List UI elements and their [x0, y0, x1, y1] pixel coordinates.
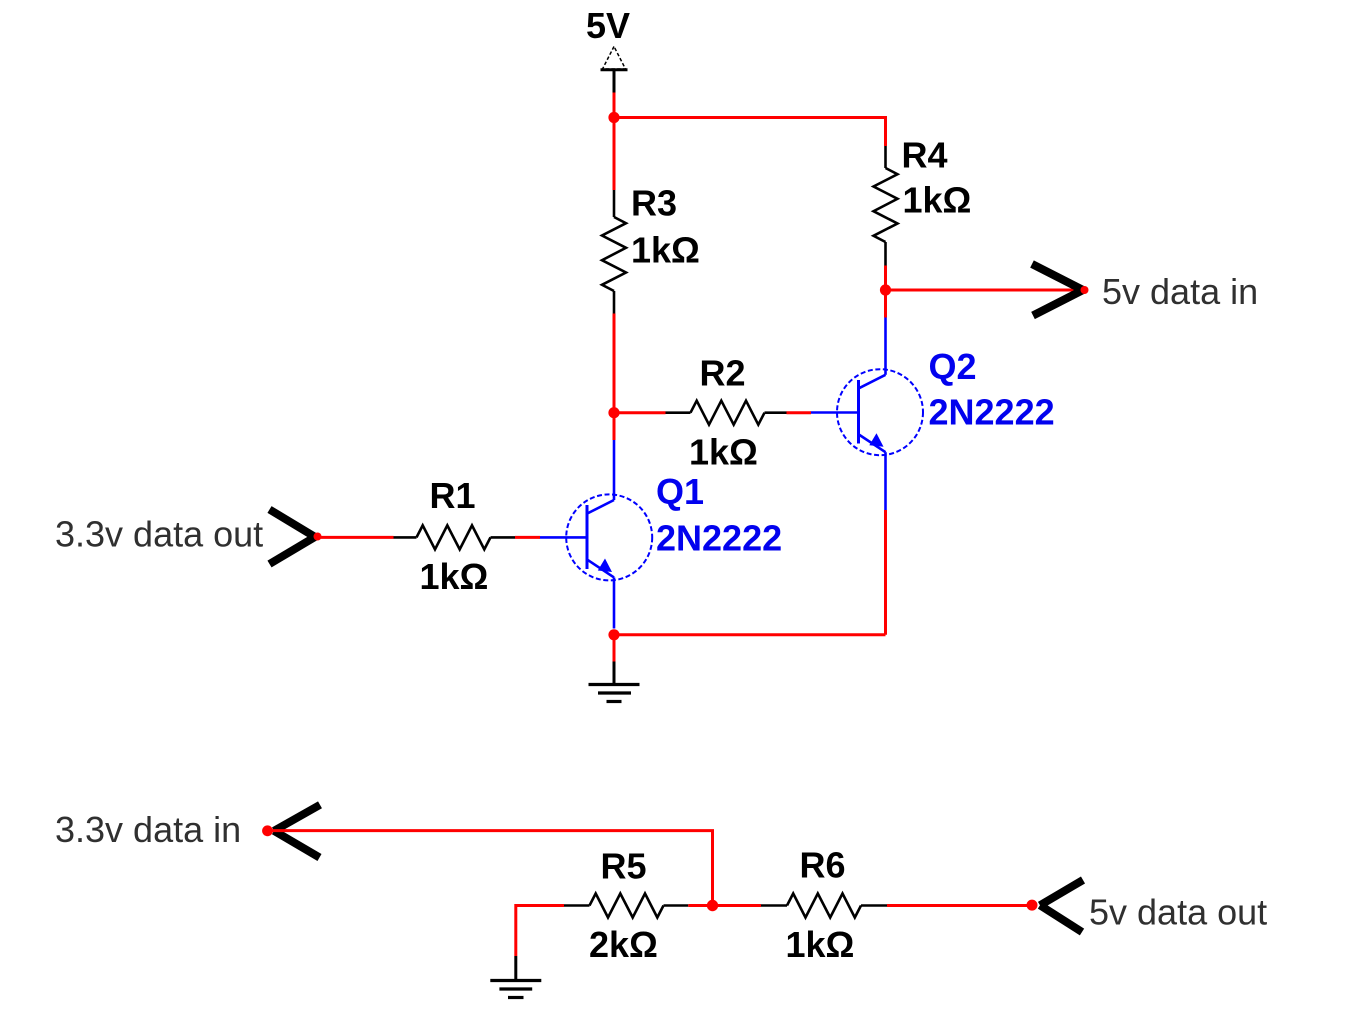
wire node A down to R3 [613, 118, 616, 191]
svg-text:Q1: Q1 [656, 471, 704, 512]
node E junction (R5/R6) [707, 900, 718, 911]
svg-text:1kΩ: 1kΩ [689, 432, 758, 473]
wire node C down to Q1 [613, 413, 616, 440]
svg-text:2N2222: 2N2222 [929, 392, 1055, 433]
svg-text:Q2: Q2 [929, 346, 977, 387]
svg-text:1kΩ: 1kΩ [420, 556, 489, 597]
svg-text:2kΩ: 2kΩ [589, 924, 658, 965]
svg-text:5v data out: 5v data out [1089, 892, 1267, 933]
svg-text:1kΩ: 1kΩ [786, 924, 855, 965]
wire R6 to 5v data out port [887, 904, 1031, 907]
wire top rail [614, 118, 886, 147]
wire node C to R2 [614, 411, 666, 414]
wire node B to 5v data in port [886, 289, 1083, 292]
wire R2 to Q2 base [787, 411, 812, 414]
svg-text:5v data in: 5v data in [1102, 271, 1258, 312]
transistor Q2 [811, 318, 924, 511]
svg-text:3.3v data out: 3.3v data out [55, 514, 263, 555]
wire node D to ground [613, 635, 616, 662]
wire R3 to node C [613, 314, 616, 413]
node D junction (Q1 emitter) [608, 629, 619, 640]
wire Q2 emitter down [884, 510, 887, 635]
ground GND2 [490, 956, 541, 998]
ground GND1 [589, 662, 640, 702]
wire node E to R6 [713, 904, 762, 907]
node C junction [608, 407, 619, 418]
wire node D to Q2 emitter [614, 633, 886, 636]
svg-text:R6: R6 [800, 845, 846, 886]
resistor R2 [666, 401, 787, 425]
svg-text:1kΩ: 1kΩ [631, 230, 700, 271]
svg-text:R2: R2 [700, 353, 746, 394]
svg-text:R4: R4 [902, 135, 948, 176]
node A junction [608, 112, 619, 123]
wire port to R1 [317, 536, 394, 539]
port arrow 3.3v data in [262, 805, 320, 858]
wire R5 left corner [516, 906, 564, 957]
svg-text:5V: 5V [586, 5, 630, 46]
port arrow 3.3v data out [270, 510, 322, 565]
port arrow 5v data out [1027, 880, 1084, 932]
resistor R3 [602, 190, 626, 314]
svg-text:R1: R1 [430, 475, 476, 516]
resistor R4 [874, 146, 898, 266]
wire 3.3v data in to corner [272, 831, 713, 906]
port arrow 5v data in [1032, 264, 1089, 316]
svg-text:R3: R3 [631, 183, 677, 224]
transistor Q1 [540, 440, 653, 629]
wire 5V stub to node A [613, 93, 616, 118]
resistor R1 [394, 525, 516, 549]
wire node B to Q2 collector [884, 290, 887, 318]
svg-text:1kΩ: 1kΩ [903, 180, 972, 221]
node B junction [880, 284, 891, 295]
svg-text:R5: R5 [601, 846, 647, 887]
wire R4 to node B [884, 266, 887, 291]
svg-text:3.3v data in: 3.3v data in [55, 809, 241, 850]
resistor R5 [564, 894, 688, 918]
power symbol 5V [601, 47, 628, 93]
wire R5 to node E [688, 904, 712, 907]
resistor R6 [761, 894, 887, 918]
svg-text:2N2222: 2N2222 [656, 518, 782, 559]
wire R1 to Q1 base [515, 536, 540, 539]
